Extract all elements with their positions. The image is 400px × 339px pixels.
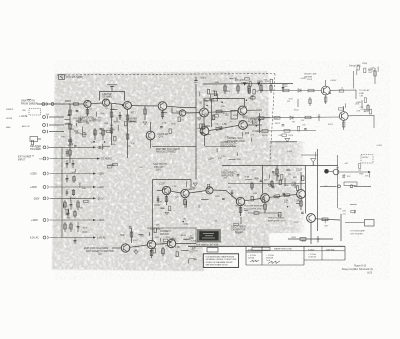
svg-text:R84: R84 <box>68 111 71 113</box>
svg-text:DRIVER: DRIVER <box>160 234 169 236</box>
wire top right vertical <box>353 71 355 89</box>
connector J4 <box>43 130 48 133</box>
capacitor ticks <box>98 147 101 148</box>
vertical x305 <box>305 166 307 214</box>
junction arrow blob A <box>243 83 246 86</box>
resistor R13 under Q4 <box>161 110 164 119</box>
wire v1 row <box>258 90 321 92</box>
capacitor C2 on bus <box>68 140 72 142</box>
svg-text:Q84: Q84 <box>156 169 161 172</box>
junction arrow blob B <box>257 83 260 86</box>
wire tick <box>216 97 220 99</box>
svg-text:C107: C107 <box>159 183 165 186</box>
svg-text:.001: .001 <box>214 221 218 223</box>
resistor R22 under V1 <box>325 97 327 102</box>
wire Q11 to Q12 <box>171 191 181 193</box>
svg-text:+100V: +100V <box>97 219 104 222</box>
svg-text:AND DISCONNECT: AND DISCONNECT <box>156 151 177 154</box>
capacitor ticks <box>222 198 225 199</box>
decoupling cap row 241 <box>74 238 77 245</box>
wire tick <box>101 144 103 150</box>
svg-text:R102: R102 <box>181 235 187 237</box>
wire tick <box>170 237 174 239</box>
waveform squiggle cell1 <box>250 260 259 262</box>
svg-text:SWEEP: SWEEP <box>6 109 14 111</box>
decoupling caps row 191 <box>66 189 75 196</box>
svg-text:4.7K: 4.7K <box>162 123 167 125</box>
photo inset dark area <box>199 231 218 240</box>
resistor body <box>213 115 215 120</box>
vertical drop x111 <box>110 104 113 145</box>
ground stub <box>268 185 272 187</box>
transistor Q7 symbol <box>202 109 205 116</box>
svg-text:AUX IN: AUX IN <box>22 125 30 128</box>
junction dot <box>256 125 258 127</box>
resistor R31 under Q12 <box>184 198 187 208</box>
resistor body <box>214 91 216 96</box>
transistor V2 symbol <box>342 113 345 120</box>
capacitor C4 top of feed <box>194 77 197 83</box>
resistor body <box>31 140 33 145</box>
decoupling caps row 204 <box>64 200 79 210</box>
resistor body <box>297 126 299 131</box>
wire to right box <box>345 222 364 224</box>
resistor body <box>351 210 356 212</box>
wire tick <box>199 92 201 97</box>
wire Q16 emitter down <box>300 198 302 210</box>
wire tick <box>168 191 170 195</box>
P/O A5 assembly box <box>59 75 65 80</box>
wire Q2 to Q3 <box>110 103 124 105</box>
svg-text:+100V: +100V <box>376 145 383 147</box>
transistor Q4 symbol <box>161 103 164 110</box>
svg-text:Sweep Amplifier Schematic (1): Sweep Amplifier Schematic (1) <box>342 268 374 271</box>
svg-text:CALIBRATOR: CALIBRATOR <box>231 228 246 231</box>
transistor Q19 <box>147 240 155 248</box>
svg-text:+ 1.5V A: + 1.5V A <box>308 253 316 256</box>
transistor Q6 <box>179 110 185 116</box>
resistor R51 q15 wire <box>274 195 280 198</box>
svg-text:120K: 120K <box>190 187 196 190</box>
diode D3 on vertical <box>258 120 261 123</box>
svg-text:47K: 47K <box>192 248 197 250</box>
capacitor ticks <box>277 176 280 177</box>
wire tick <box>250 138 252 142</box>
svg-text:AND SWEEP COMPUTER: AND SWEEP COMPUTER <box>86 250 114 253</box>
table divider x322 <box>321 246 323 260</box>
resistor body <box>83 132 85 137</box>
resistor R28 row131 <box>284 130 290 133</box>
dashed box ext horiz <box>361 155 373 164</box>
svg-text:AMPLIFIER Q104: AMPLIFIER Q104 <box>268 219 286 222</box>
connector J5 <box>43 146 48 149</box>
wire tick <box>296 202 300 204</box>
junction dot <box>206 105 208 107</box>
svg-text:C83: C83 <box>69 144 74 146</box>
svg-text:270: 270 <box>156 228 161 231</box>
wire Q7 to Q8 vertical <box>203 117 205 127</box>
svg-text:+ 1.2V A: + 1.2V A <box>248 254 256 257</box>
connector J1 <box>42 102 54 106</box>
connector J3 <box>43 123 48 126</box>
arrow on ring wire <box>368 171 371 173</box>
svg-text:R99: R99 <box>255 177 260 180</box>
svg-text:C94: C94 <box>68 228 71 230</box>
junction dot <box>287 206 289 208</box>
capacitor ticks <box>272 187 275 188</box>
resistor body <box>207 89 209 94</box>
svg-text:+225V: +225V <box>30 173 37 176</box>
resistor body <box>339 90 344 92</box>
table header underline <box>246 250 345 252</box>
q9 feed frame top <box>212 99 245 127</box>
svg-text:R104: R104 <box>83 227 88 229</box>
vertical x262 <box>261 166 263 194</box>
svg-text:HORIZ OUTPUT: HORIZ OUTPUT <box>268 218 285 220</box>
junction dot <box>262 90 264 92</box>
wire tick <box>229 78 233 80</box>
rail 237 arrow <box>93 236 96 238</box>
resistor body <box>253 89 255 94</box>
connector J9 rail198 <box>43 197 48 200</box>
ground under R5 <box>143 122 147 125</box>
tube V2 <box>339 112 348 121</box>
wire into Q18 <box>112 247 121 249</box>
wire Q4 output <box>167 106 196 107</box>
vertical x341 <box>340 214 342 241</box>
ground on y141 <box>285 138 290 141</box>
svg-text:+100V: +100V <box>97 186 104 189</box>
resistor body <box>364 68 366 73</box>
svg-text:56K: 56K <box>120 234 125 237</box>
svg-text:+ GATE: + GATE <box>19 115 28 118</box>
connector pair P1 <box>338 185 353 188</box>
transistor Q17 <box>307 214 316 223</box>
wire tick <box>194 258 197 260</box>
capacitor ticks <box>201 132 204 133</box>
resistor body <box>357 65 359 70</box>
svg-text:R107: R107 <box>289 99 293 101</box>
transistor Q14 symbol <box>239 198 242 205</box>
wire Q14 to Q15 <box>245 199 261 201</box>
wire tick <box>201 124 203 130</box>
svg-text:6.3V AC: 6.3V AC <box>97 237 106 240</box>
capacitor ticks <box>68 114 71 115</box>
svg-text:Q64: Q64 <box>98 254 103 256</box>
wire tick <box>345 103 347 108</box>
svg-text:4.7K: 4.7K <box>238 121 243 123</box>
wire J3 <box>49 124 64 126</box>
transistor Q7 <box>200 108 209 117</box>
resistor body <box>296 186 298 191</box>
wire y239 <box>288 238 333 240</box>
svg-text:R73: R73 <box>194 251 197 253</box>
svg-text:1.5K: 1.5K <box>172 186 177 188</box>
svg-text:120K: 120K <box>191 240 197 242</box>
transistor Q8 symbol <box>203 127 206 134</box>
wire tick <box>103 145 110 147</box>
svg-text:R84: R84 <box>103 131 106 133</box>
transistor Q18 symbol <box>124 245 127 252</box>
svg-text:R73: R73 <box>244 106 247 108</box>
decoupling caps row 163 <box>66 160 75 168</box>
junction dot <box>104 141 106 143</box>
svg-text:V875: V875 <box>307 79 313 81</box>
svg-text:CRT PLATES: CRT PLATES <box>350 232 363 235</box>
wire tick <box>324 219 326 223</box>
svg-text:+100V: +100V <box>30 186 37 189</box>
svg-text:TO HORIZ: TO HORIZ <box>101 159 113 161</box>
cap C31 on q14 base <box>231 190 234 197</box>
wire tick <box>245 179 252 181</box>
bus wire y165 <box>222 165 338 167</box>
capacitor ticks <box>76 110 79 111</box>
svg-text:C98: C98 <box>112 130 115 132</box>
svg-text:INPUT: INPUT <box>18 158 26 161</box>
table top small box <box>207 248 218 253</box>
svg-text:2.2K: 2.2K <box>183 112 188 114</box>
resistor R50 on x277 <box>276 169 278 174</box>
dark connector dot <box>324 169 329 174</box>
capacitor ticks <box>304 129 307 130</box>
wire V1 plate out <box>330 90 356 99</box>
svg-text:R107: R107 <box>189 252 193 254</box>
wire tick <box>354 210 356 214</box>
resistor body <box>169 129 171 134</box>
svg-text:+300V: +300V <box>300 78 307 80</box>
wire tick <box>244 210 248 212</box>
resistor body <box>176 252 178 257</box>
waveform squiggle cell2 <box>268 261 280 264</box>
wire tick <box>161 112 167 114</box>
components above Q15 <box>251 178 285 190</box>
photo inset light text line1 <box>203 233 214 235</box>
capacitor ticks <box>100 129 103 130</box>
transistor Q2 symbol <box>104 100 107 106</box>
svg-text:R99: R99 <box>205 126 210 128</box>
resistor R9 between Q7 Q9 <box>208 110 238 113</box>
svg-text:R99: R99 <box>245 133 250 135</box>
ground on bus <box>311 159 316 166</box>
resistor R36 on Q17 wire <box>322 218 328 221</box>
right column marks x375 <box>374 68 376 84</box>
junction dot <box>150 250 152 252</box>
wire tick <box>70 137 72 143</box>
svg-text:4.7K: 4.7K <box>183 223 188 226</box>
sawtooth frame right drop <box>190 180 192 188</box>
svg-text:R845: R845 <box>65 100 71 103</box>
resistor body <box>270 79 272 84</box>
resistor body <box>169 206 171 211</box>
pot box component <box>231 111 238 120</box>
resistor R14 on main line <box>74 103 79 105</box>
resistor body <box>113 164 118 166</box>
wire Q11 base <box>157 190 162 192</box>
wire rail 158 <box>50 158 98 160</box>
svg-text:EF AMPL: EF AMPL <box>103 96 113 99</box>
svg-text:1.5K: 1.5K <box>218 158 223 160</box>
wire Q9 out <box>247 109 262 111</box>
capacitor ticks <box>260 180 263 181</box>
svg-text:47K: 47K <box>127 146 131 148</box>
component drop at 131 <box>130 228 133 243</box>
dashed option box <box>29 109 41 116</box>
svg-text:R102: R102 <box>71 198 76 200</box>
svg-text:C98: C98 <box>324 186 327 188</box>
svg-text:.001: .001 <box>162 189 167 191</box>
svg-text:EMITTER FOLL: EMITTER FOLL <box>221 143 238 145</box>
V2 grid bar <box>341 114 343 119</box>
svg-text:1.5K: 1.5K <box>110 117 115 119</box>
resistor body <box>282 134 287 136</box>
rail 173 arrow <box>93 172 96 174</box>
wire tick <box>368 172 370 177</box>
svg-text:-150V: -150V <box>97 197 104 200</box>
wire tick <box>181 250 188 252</box>
wire rail 187 <box>50 186 94 188</box>
sawtooth frame top <box>153 179 192 181</box>
wire q8 out right <box>205 146 236 148</box>
svg-text:TO HORIZ AMP: TO HORIZ AMP <box>350 230 365 233</box>
resistor R8 drop <box>248 84 250 94</box>
sawtooth frame left vertical <box>152 180 154 241</box>
emitter follower feedback loop wire <box>100 92 125 101</box>
svg-text:EMITTER FOLLOWER: EMITTER FOLLOWER <box>156 149 180 151</box>
svg-text:.5uS: .5uS <box>266 260 271 262</box>
wire tick <box>70 197 72 201</box>
svg-text:R 1847: R 1847 <box>308 250 315 252</box>
wire Q18 to Q19 <box>130 245 148 247</box>
connector J8 rail187 <box>43 185 48 188</box>
wire tick <box>188 259 190 264</box>
resistor R5 beside Q4 <box>144 106 146 120</box>
wire tick <box>96 112 98 117</box>
wire tick <box>204 133 210 135</box>
svg-text:C98: C98 <box>301 120 304 122</box>
wire tick <box>184 238 190 240</box>
wire tick <box>251 95 253 101</box>
svg-text:R845: R845 <box>235 206 239 208</box>
transistor Q20 <box>167 239 175 247</box>
capacitor C3 beside Q3 <box>119 112 122 120</box>
wire Q19 to Q20 <box>156 243 168 246</box>
wire tick <box>75 123 77 127</box>
resistor R10 between Q8 Q10 <box>209 125 239 130</box>
resistor body <box>78 118 80 123</box>
wire Q3 to Q4 <box>132 105 159 107</box>
wire tick <box>130 120 136 122</box>
svg-text:R876: R876 <box>262 135 268 137</box>
svg-text:C98: C98 <box>302 125 305 127</box>
wire Q5 collector <box>150 122 152 131</box>
transistor Q4 <box>158 102 167 111</box>
svg-text:33K: 33K <box>324 226 328 228</box>
svg-text:33K: 33K <box>210 158 214 160</box>
wire y141 stub <box>270 141 297 143</box>
termination block <box>30 137 41 145</box>
cluster under V1 <box>298 97 311 107</box>
resistor body <box>251 97 256 99</box>
svg-text:1.5K: 1.5K <box>175 246 180 249</box>
capacitor ticks <box>74 146 77 147</box>
resistor R30 under Q11 <box>165 195 168 205</box>
svg-text:OBTAINED UNDER CONDITIONS: OBTAINED UNDER CONDITIONS <box>206 258 238 261</box>
cap C5 drop <box>282 84 285 92</box>
svg-text:.01: .01 <box>341 88 344 90</box>
diode D1 on v1 row <box>298 89 301 93</box>
wire Q16 collector up <box>300 172 302 190</box>
svg-text:Figure 8-10: Figure 8-10 <box>354 265 366 268</box>
wire tick <box>201 199 209 201</box>
wire after connector <box>354 185 371 187</box>
svg-text:C82: C82 <box>358 170 361 172</box>
svg-text:MAG: MAG <box>6 126 11 129</box>
ground near frame <box>193 183 198 186</box>
connector J10 rail220 <box>43 218 48 221</box>
wire rail 220 <box>50 219 94 221</box>
vertical feed line x196 <box>195 84 197 180</box>
svg-text:1K: 1K <box>242 115 245 118</box>
transistor Q16 <box>297 190 306 199</box>
resistor body <box>107 166 112 168</box>
capacitor ticks <box>364 110 367 111</box>
svg-text:270: 270 <box>288 174 291 176</box>
cap C20 row118 <box>318 114 321 121</box>
small box right 365 <box>365 220 375 227</box>
resistor R34 under Q15 <box>264 202 267 213</box>
svg-text:10K: 10K <box>284 86 288 88</box>
wire tick <box>237 152 239 156</box>
table outline <box>246 246 345 265</box>
photo inset outer frame <box>198 230 221 242</box>
svg-text:SEE PARTS LIST FOR: SEE PARTS LIST FOR <box>196 244 219 247</box>
resistor body <box>153 248 155 253</box>
resistor R4 on bus <box>69 150 71 155</box>
wire V2 cathode <box>343 120 345 130</box>
wire tick <box>75 169 77 172</box>
wire tick <box>229 159 236 161</box>
wire tick <box>139 234 144 236</box>
rail 220 arrow <box>93 219 96 221</box>
transistor Q5 <box>146 131 155 140</box>
svg-text:NORM: NORM <box>6 118 12 120</box>
wire tick <box>216 148 218 152</box>
svg-text:8-23: 8-23 <box>367 272 372 274</box>
transistor Q10 <box>239 121 248 130</box>
wire tick <box>64 119 69 121</box>
svg-text:6.3V AC: 6.3V AC <box>30 237 39 240</box>
svg-text:R73: R73 <box>131 112 136 115</box>
junction dot <box>200 115 202 117</box>
resistor R27 row131 <box>262 130 268 133</box>
resistor R1 under Q1 <box>86 108 89 116</box>
resistor body <box>107 130 112 132</box>
wire Q6 to Q7 <box>186 112 200 114</box>
resistor R53 on y213 <box>254 212 259 214</box>
svg-text:R73: R73 <box>67 156 70 158</box>
wire tick <box>186 181 188 187</box>
svg-text:.5uS/CM: .5uS/CM <box>308 257 316 259</box>
capacitor ticks <box>237 175 240 176</box>
wire tick <box>62 204 64 209</box>
vertical from V1 top <box>325 80 327 86</box>
resistor body <box>281 175 283 180</box>
svg-text:R84: R84 <box>139 167 142 169</box>
wire rail 173 <box>50 173 94 175</box>
rail 187 arrow <box>93 186 96 188</box>
transistor Q8 <box>200 127 209 136</box>
svg-text:OSC + TIMER: OSC + TIMER <box>231 227 246 229</box>
